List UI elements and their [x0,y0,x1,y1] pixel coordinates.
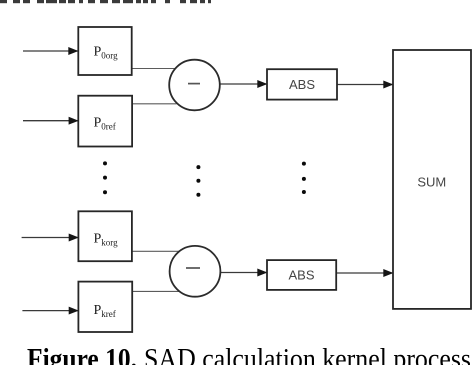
svg-text:ABS: ABS [288,268,314,283]
svg-text:SAD calculation kernel process: SAD calculation kernel process [144,344,471,365]
svg-text:Figure 10.: Figure 10. [27,344,137,365]
svg-text:SUM: SUM [417,175,446,190]
svg-text:ABS: ABS [289,77,315,92]
